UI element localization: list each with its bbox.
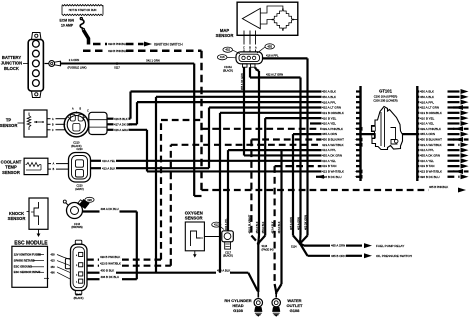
svg-text:450 A BLK: 450 A BLK	[261, 221, 265, 233]
svg-text:465 A ORN: 465 A ORN	[297, 217, 301, 230]
svg-text:432: 432	[225, 48, 230, 52]
svg-text:432 A LT GRN: 432 A LT GRN	[322, 106, 341, 110]
wire right row 10 450 B BLK/WHT with arrow	[417, 137, 468, 142]
fuse F1 symbol	[80, 18, 88, 45]
svg-text:416 A PPL: 416 A PPL	[322, 100, 336, 104]
svg-text:413 A BLK: 413 A BLK	[102, 166, 115, 170]
vertical wire labels at S114	[289, 215, 308, 230]
wire right row 2 450 A BLK with arrow	[417, 94, 468, 99]
wire 416 A GRA from TP connector	[107, 128, 147, 172]
wire left row 17 496 B DK BLU label segment	[322, 175, 363, 179]
svg-text:SENSOR: SENSOR	[8, 216, 26, 221]
svg-text:450 A BLK: 450 A BLK	[322, 95, 336, 99]
svg-text:496 B DK BLU: 496 B DK BLU	[322, 175, 342, 179]
svg-text:496 B DK BLU: 496 B DK BLU	[101, 275, 120, 279]
GT101 label	[373, 89, 397, 103]
ground label WATER OUTLET G103	[287, 298, 304, 313]
svg-text:(BROWN): (BROWN)	[71, 226, 82, 229]
wire 439 B PNK/BLK from ESC connector (dashed)	[87, 120, 202, 260]
svg-text:(BLACK): (BLACK)	[223, 255, 233, 258]
ESC wires module to connector	[57, 255, 71, 280]
svg-text:C: C	[87, 110, 89, 113]
wire through GT101 row9	[361, 133, 418, 135]
wire 413 coolant to row4 horizontal	[209, 106, 322, 108]
MAP sensor connector C104A	[223, 52, 263, 73]
wire left row 16 423 B WHT/BLK label segment	[322, 170, 363, 174]
svg-text:(FUSIBLE LINK): (FUSIBLE LINK)	[67, 66, 86, 70]
svg-text:439: 439	[51, 254, 56, 257]
wire right row 17 496 B DK BLU with arrow	[417, 174, 468, 179]
ESC connector C140	[65, 240, 87, 300]
wire left row 7 410 A YEL label segment	[322, 122, 361, 126]
wire left row 5 413 B ORN/BLK label segment	[322, 111, 361, 115]
wire left row 2 450 A BLK label segment	[322, 95, 361, 99]
svg-text:12V IGNITION FUSED: 12V IGNITION FUSED	[14, 252, 41, 256]
svg-text:413 A BLK: 413 A BLK	[277, 221, 281, 233]
svg-text:419 B TAN: 419 B TAN	[322, 164, 336, 168]
bridge circuit inside MAP sensor	[260, 6, 298, 31]
wire left row 8 439 A PNK/BLK label segment	[322, 127, 363, 131]
svg-text:439 B PNK/BLK: 439 B PNK/BLK	[100, 255, 120, 259]
svg-text:SENSOR: SENSOR	[185, 216, 203, 221]
GT101 left plate	[359, 86, 361, 181]
svg-text:450 A BLK: 450 A BLK	[255, 221, 259, 233]
svg-text:ESC GROUND: ESC GROUND	[14, 265, 32, 269]
knock sensor box	[29, 198, 48, 229]
wire left row 3 416 A PPL label segment	[322, 100, 361, 104]
ring terminal eyelet	[49, 61, 61, 67]
wire right row 12 412 A PPL with arrow	[417, 148, 468, 153]
svg-text:C104A: C104A	[224, 65, 232, 69]
oxygen sensor connector C117	[204, 231, 233, 258]
svg-text:410 B YEL: 410 B YEL	[420, 116, 435, 120]
svg-text:410 A YEL: 410 A YEL	[322, 122, 336, 126]
svg-text:OIL PRESSURE SWITCH: OIL PRESSURE SWITCH	[376, 254, 412, 258]
svg-text:SPARK RETARD: SPARK RETARD	[14, 259, 35, 263]
wire 465 B PNK/BLK long dashed to right edge	[202, 185, 467, 192]
wire 455 A DK GRN from MAP connector	[241, 67, 322, 155]
svg-text:465 DK GRN: 465 DK GRN	[304, 215, 308, 230]
wire battery feed vertical segment	[194, 64, 201, 197]
water outlet splice	[275, 284, 282, 294]
svg-text:496: 496	[51, 271, 56, 274]
wire left row 4 432 A LT GRN label segment	[322, 106, 361, 110]
splice S116 junction	[251, 236, 273, 293]
svg-text:2 A ORN: 2 A ORN	[69, 58, 80, 62]
wire row16 423 B WHT/BLK dashed	[275, 166, 322, 284]
svg-text:465 B PNK/BLK: 465 B PNK/BLK	[429, 185, 448, 189]
svg-text:450 B BLK/WHT: 450 B BLK/WHT	[247, 214, 251, 233]
vertical wire labels at water outlet	[271, 221, 282, 233]
TP sensor pin wires to connector	[47, 118, 66, 132]
oxygen sensor label	[185, 210, 203, 220]
svg-text:455 A DK GRN: 455 A DK GRN	[241, 73, 244, 90]
svg-text:450 A BLK: 450 A BLK	[420, 95, 434, 99]
wire right row 5 413 B ORN/BLK with arrow	[417, 110, 468, 115]
svg-text:TP: TP	[6, 118, 12, 123]
svg-text:410 B YEL: 410 B YEL	[322, 116, 337, 120]
svg-text:439 B PNK/BLK: 439 B PNK/BLK	[108, 49, 127, 53]
wire 496 A DK BLU knock sensor to ESC	[83, 207, 137, 279]
svg-text:450 B BLK: 450 B BLK	[101, 268, 115, 272]
svg-text:496 A DK BLU: 496 A DK BLU	[101, 207, 119, 211]
svg-text:416 B BLK: 416 B BLK	[114, 117, 128, 121]
svg-text:423 B WHT/BLK: 423 B WHT/BLK	[100, 261, 121, 265]
wire row9 465 A ORN horizontal	[293, 134, 322, 235]
ESC module pin numbers	[51, 254, 56, 275]
svg-text:423: 423	[51, 260, 56, 263]
circuit tag 416 oval	[217, 55, 236, 60]
svg-text:OXYGEN: OXYGEN	[185, 210, 203, 215]
splice S114 junction	[291, 236, 308, 249]
svg-text:450 B BLK/WHT: 450 B BLK/WHT	[322, 138, 344, 142]
svg-text:410 A YEL: 410 A YEL	[420, 159, 434, 163]
wire row15 419 B TAN horizontal	[147, 170, 322, 172]
wire right row 8 439 A PNK/BLK with arrow	[417, 126, 468, 131]
svg-text:BATTERY: BATTERY	[2, 55, 22, 60]
wire row11 423 A WHT/BLK dashed	[171, 144, 322, 146]
svg-text:C: C	[243, 46, 245, 49]
svg-text:GT101: GT101	[379, 89, 392, 94]
svg-text:412 A PPL: 412 A PPL	[420, 148, 434, 152]
svg-text:496: 496	[87, 198, 92, 202]
svg-text:412 A PPL: 412 A PPL	[322, 148, 336, 152]
wire 416 A PPL from MAP connector	[263, 54, 308, 236]
svg-text:439 B PNK/BLK: 439 B PNK/BLK	[108, 42, 127, 46]
wire left row 10 450 B BLK/WHT label segment	[322, 138, 363, 142]
wire 413 A BLK from coolant sensor	[91, 107, 210, 170]
circuit tag 412 oval at oxygen sensor	[212, 222, 224, 229]
ESC module label	[14, 241, 48, 247]
circuit tag 496 oval at knock connector	[81, 197, 94, 204]
svg-text:JUNCTION: JUNCTION	[1, 60, 22, 65]
wire row6 410 B YEL horizontal	[265, 118, 321, 235]
wire row17 496 B DK BLU dashed	[316, 175, 324, 179]
svg-text:465 A ORN: 465 A ORN	[420, 132, 435, 136]
wire left row 13 455 A DK GRN label segment	[322, 154, 361, 158]
wire row10 450 B BLK/WHT dashed	[251, 139, 321, 235]
ground G108 bolt	[254, 291, 262, 317]
MAP sensor pin wires	[243, 31, 257, 53]
oxygen sensor ground	[193, 251, 197, 258]
wire left row 12 412 A PPL label segment	[322, 148, 361, 152]
svg-text:C: C	[52, 129, 54, 132]
wire 465 B ORN to oil pressure switch	[300, 244, 412, 259]
wire MAP sensor ground down to S116	[256, 67, 260, 235]
svg-text:(GRAY): (GRAY)	[75, 188, 84, 191]
wire water outlet solid vertical	[280, 150, 282, 284]
wire right row 14 410 A YEL with arrow	[417, 158, 468, 163]
svg-text:432 A LT GRN: 432 A LT GRN	[420, 106, 439, 110]
TP sensor label	[0, 118, 24, 128]
svg-text:ECM IGN: ECM IGN	[60, 19, 75, 23]
svg-text:C220: C220	[77, 148, 84, 151]
svg-text:465 A ORN: 465 A ORN	[331, 244, 345, 248]
svg-text:410 A YEL: 410 A YEL	[102, 159, 116, 163]
svg-text:G108: G108	[290, 308, 301, 313]
svg-text:450 B BLK/WHT: 450 B BLK/WHT	[420, 138, 442, 142]
ground G103 bolt	[272, 292, 280, 317]
wire 450 B BLK ESC ground to G108	[87, 268, 258, 291]
fuse ECM IGN 10 AMP label	[60, 19, 75, 28]
svg-text:413 B ORN/BLK: 413 B ORN/BLK	[420, 111, 442, 115]
wire 432 A LT GRN from MAP connector	[250, 67, 301, 235]
svg-text:412 A PPL: 412 A PPL	[225, 218, 228, 230]
svg-text:455 A DK GRN: 455 A DK GRN	[322, 154, 342, 158]
wire 423 B WHT/BLK from ESC connector (dashed)	[87, 145, 171, 266]
MAP sensor label	[216, 28, 234, 38]
TP connector face grid	[89, 112, 107, 134]
wire 410 coolant branch vertical	[220, 113, 322, 273]
wire 439 A PNK/BLK branch to GT101 (dashed)	[202, 128, 322, 130]
svg-text:SENSOR: SENSOR	[0, 123, 17, 128]
wire left row 9 465 A ORN label segment	[322, 132, 361, 136]
svg-text:10 AMP: 10 AMP	[61, 23, 74, 27]
wire row7 410 A YEL horizontal	[310, 122, 322, 124]
svg-text:KNOCK: KNOCK	[9, 211, 24, 216]
svg-text:SENSOR: SENSOR	[216, 33, 234, 38]
svg-text:(BLACK): (BLACK)	[74, 297, 84, 300]
wire 410 A YEL from coolant sensor	[91, 159, 322, 163]
svg-text:432 A LT GRN: 432 A LT GRN	[266, 73, 283, 77]
wire row1 450 A BLK horizontal	[131, 90, 322, 92]
wire 439 B PNK/BLK to ignition switch (dashed)	[93, 42, 183, 47]
svg-text:465 A ORN: 465 A ORN	[289, 217, 293, 230]
svg-text:423 B WHT/BLK: 423 B WHT/BLK	[322, 170, 344, 174]
svg-text:C200 20A (UPPER): C200 20A (UPPER)	[374, 95, 398, 99]
svg-text:410 A YEL: 410 A YEL	[420, 122, 434, 126]
svg-text:BLOCK: BLOCK	[4, 66, 19, 71]
wire 439 B PNK/BLK feed to ECM (dashed)	[83, 49, 202, 53]
wire left row 1 450 A BLK label segment	[322, 90, 361, 94]
wire right row 16 423 B WHT/BLK with arrow	[417, 169, 468, 174]
wire right row 3 416 A PPL with arrow	[417, 100, 468, 105]
svg-text:423 A WHT/BLK: 423 A WHT/BLK	[322, 143, 344, 147]
oxygen sensor box	[185, 222, 204, 251]
svg-text:413 A BLK: 413 A BLK	[271, 221, 275, 233]
wire right row 11 423 A WHT/BLK with arrow	[417, 142, 468, 147]
wire 417 A DK BLU from TP connector	[107, 102, 137, 126]
battery junction block label	[1, 55, 28, 71]
coolant temp sensor label	[1, 159, 22, 175]
svg-text:C210: C210	[73, 141, 80, 145]
svg-text:439 A PNK/BLK: 439 A PNK/BLK	[420, 127, 441, 131]
svg-text:423 A WHT/BLK: 423 A WHT/BLK	[420, 143, 442, 147]
svg-text:HOT IN START OR RUN: HOT IN START OR RUN	[69, 9, 97, 12]
wire 465 A ORN to fuel pump relay	[300, 243, 404, 248]
svg-text:S114: S114	[291, 246, 297, 249]
wire left row 6 410 B YEL label segment	[322, 116, 361, 120]
ground label RH CYLINDER HEAD G108	[224, 298, 251, 313]
wire right row 15 419 B TAN with arrow	[417, 164, 468, 169]
svg-text:410 A YEL: 410 A YEL	[322, 159, 336, 163]
coolant temp sensor box	[24, 158, 48, 174]
svg-text:COOLANT: COOLANT	[1, 159, 22, 164]
wire right row 13 455 A DK GRN with arrow	[417, 153, 468, 158]
svg-text:(PAGE 94): (PAGE 94)	[262, 249, 274, 252]
svg-text:413 B ORN/BLK: 413 B ORN/BLK	[322, 111, 344, 115]
svg-text:465 A ORN: 465 A ORN	[322, 132, 337, 136]
svg-text:416 A PPL: 416 A PPL	[420, 100, 434, 104]
wire row3 416 A PPL horizontal	[137, 101, 322, 103]
coolant sensor pin wires	[48, 163, 69, 172]
wire 450 BLK ground bus vertical	[156, 97, 322, 273]
power source box HOT IN START OR RUN	[62, 5, 103, 16]
svg-text:423 B WHT/BLK: 423 B WHT/BLK	[420, 170, 442, 174]
knock sensor ground	[37, 229, 41, 237]
knock sensor label	[8, 211, 29, 221]
connector GT101 symbol	[372, 107, 403, 150]
wire right row 7 410 A YEL with arrow	[417, 121, 468, 126]
svg-text:455: 455	[267, 44, 272, 48]
svg-text:G108: G108	[233, 308, 244, 313]
svg-text:542 1 ORN: 542 1 ORN	[146, 59, 160, 63]
wire 496 B DK BLU ESC sensor input	[87, 275, 137, 279]
wire 416 B BLK from TP connector	[107, 92, 131, 121]
svg-text:450 A BLK: 450 A BLK	[420, 90, 434, 94]
op-amp triangle inside MAP sensor	[242, 8, 260, 28]
wire left row 11 423 A WHT/BLK label segment	[322, 143, 363, 147]
wire row12 412 A PPL from oxygen sensor	[225, 150, 322, 231]
TP sensor connector C210 round	[64, 108, 89, 149]
wire right row 1 450 A BLK with arrow	[417, 89, 468, 94]
vertical wire labels at S116	[247, 214, 265, 233]
MAP sensor box	[237, 2, 298, 35]
svg-text:419 B TAN: 419 B TAN	[420, 164, 434, 168]
svg-text:439 A PNK/BLK: 439 A PNK/BLK	[322, 127, 343, 131]
ESC module box	[12, 246, 49, 287]
circuit tag 432 oval	[223, 47, 240, 54]
wire 2 ORN fusible link from battery block	[45, 58, 195, 69]
TP sensor box	[24, 110, 47, 137]
wire right row 6 410 B YEL with arrow	[417, 116, 468, 121]
svg-text:465 B ORN: 465 B ORN	[331, 254, 346, 258]
svg-text:416 A GRA: 416 A GRA	[114, 128, 128, 132]
svg-text:496 B DK BLU: 496 B DK BLU	[420, 175, 440, 179]
battery junction block	[28, 33, 43, 98]
svg-text:FUEL PUMP RELAY: FUEL PUMP RELAY	[376, 244, 404, 248]
svg-text:455 A DK GRN: 455 A DK GRN	[420, 154, 440, 158]
svg-text:TEMP: TEMP	[5, 165, 17, 170]
svg-text:(BLACK): (BLACK)	[223, 68, 233, 72]
GT101 right plate	[416, 86, 418, 181]
svg-text:450: 450	[51, 266, 56, 269]
svg-text:IGNITION SWITCH: IGNITION SWITCH	[154, 42, 183, 46]
svg-text:S117: S117	[114, 66, 120, 69]
wire right row 4 432 A LT GRN with arrow	[417, 105, 468, 110]
wire 439 PNK/BLK dashed vertical from fuse	[200, 51, 202, 190]
circuit tag 455 oval	[257, 44, 275, 53]
svg-text:450 A BLK: 450 A BLK	[322, 90, 336, 94]
wire right row 9 465 A ORN with arrow	[417, 132, 468, 137]
coolant sensor connector C220	[69, 148, 91, 191]
svg-text:412: 412	[214, 223, 219, 227]
svg-text:416 A PPL: 416 A PPL	[266, 54, 279, 58]
svg-text:416: 416	[220, 55, 225, 59]
wire left row 15 419 B TAN label segment	[322, 164, 361, 168]
knock sensor connector C144	[63, 200, 89, 230]
svg-text:C200 20B (LOWER): C200 20B (LOWER)	[373, 99, 397, 103]
wire left row 14 410 A YEL label segment	[322, 159, 361, 163]
svg-text:SENSOR: SENSOR	[2, 170, 20, 175]
